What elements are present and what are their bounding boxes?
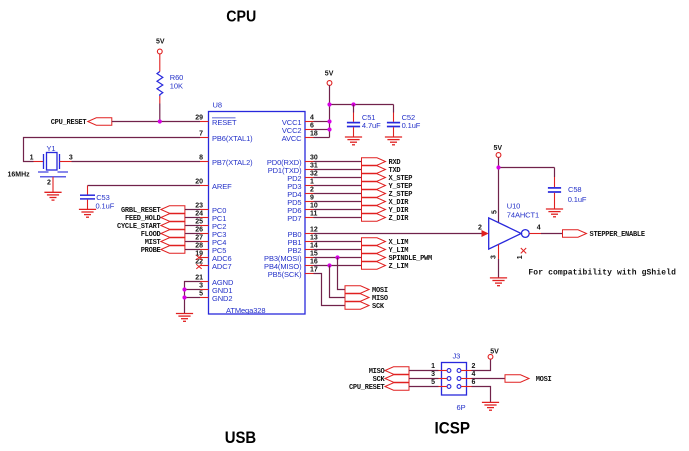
svg-text:RXD: RXD [389,159,401,167]
svg-text:CPU_RESET: CPU_RESET [51,119,87,127]
svg-text:4: 4 [537,225,541,232]
svg-text:6: 6 [310,123,314,130]
J3 pin 3 stub [431,371,447,378]
buffer U10 74AHCT1 triangle [489,202,539,250]
svg-text:31: 31 [310,163,318,170]
capacitor C51 4.7uF [347,105,381,137]
wire FEED_HOLD to U8 [185,217,200,219]
net flag Z_LIM [362,262,409,271]
U8 pin 4 VCC1 (right) [282,115,314,128]
U8 pin 6 VCC2 (right) [282,123,314,136]
net flag CYCLE_START [117,222,185,231]
svg-text:0.1uF: 0.1uF [568,195,587,204]
wire U8 to Y_LIM [314,249,362,251]
wire 5V to U10 pin5 [498,157,500,222]
wire GRBL_RESET to U8 [185,209,200,211]
svg-text:Z_DIR: Z_DIR [389,215,410,223]
wire GND1 [185,289,201,291]
wire AGND to ground [185,282,201,314]
net flag GRBL_RESET [121,206,185,215]
net flag X_STEP [362,174,413,183]
U8 pin 25 PC2 (left) [195,219,226,231]
wire U10 pin3 to ground [498,259,500,278]
junction GND2 [182,295,186,299]
wire SCK to J3 [409,378,439,380]
net flag Y_LIM [362,246,409,255]
wire MISO to J3 [409,370,439,372]
svg-text:X_LIM: X_LIM [389,239,409,247]
U8 pin 7 PB6(XTAL1) (left) [199,131,253,143]
U8 pin 19 ADC6 (left) [195,251,231,263]
svg-text:21: 21 [195,275,203,282]
svg-text:5: 5 [492,210,499,214]
U8 pin 31 PD1(TXD) (right) [268,163,318,176]
wire VCC1 [314,121,330,123]
svg-text:STEPPER_ENABLE: STEPPER_ENABLE [590,231,645,239]
junction C51 top [351,102,355,106]
U8 pin 32 PD2 (right) [287,171,318,184]
wire U8 to X_DIR [314,201,362,203]
svg-text:Z_LIM: Z_LIM [389,263,409,271]
ground under J3 [482,402,499,410]
svg-text:X_DIR: X_DIR [389,199,410,207]
U8 pin 1 PD3 (right) [287,179,314,192]
J3 pin 6 stub [461,379,475,386]
wire PB4 to MISO flag [330,266,346,298]
svg-text:SPINDLE_PWM: SPINDLE_PWM [389,255,433,263]
svg-text:14: 14 [310,243,318,250]
U8 pin 22 ADC7 (left) [195,259,231,271]
net flag FLOOD [141,230,185,239]
svg-text:10: 10 [310,203,318,210]
svg-text:29: 29 [195,115,203,122]
wire U10 out to STEPPER_ENABLE [541,233,563,235]
U8 pin 8 PB7(XTAL2) (left) [199,155,253,167]
svg-text:3: 3 [431,371,435,378]
junction 5V rail [327,102,331,106]
ground under U8 [176,314,193,322]
net flag SPINDLE_PWM [362,254,433,263]
J3 pin 5 stub [431,379,447,386]
svg-text:8: 8 [199,155,203,162]
svg-text:10K: 10K [170,81,183,90]
ground under C52 [385,137,402,145]
U8 pin 10 PD6 (right) [287,203,318,216]
net flag Z_STEP [362,190,413,199]
U8 pin 30 PD0(RXD) (right) [267,155,318,168]
svg-text:3: 3 [69,155,73,162]
svg-text:7: 7 [199,131,203,138]
svg-text:5: 5 [199,291,203,298]
svg-text:GND2: GND2 [212,294,232,303]
svg-text:Y_STEP: Y_STEP [389,183,413,191]
wire J3 pin6 to ground [472,387,491,403]
svg-text:AVCC: AVCC [282,134,303,143]
wire PB3 to MOSI flag [338,258,346,290]
svg-text:27: 27 [195,235,203,242]
U8 pin 23 PC0 (left) [195,203,226,215]
wire 5V branch to C58 [499,167,555,169]
svg-text:0.1uF: 0.1uF [402,121,421,130]
svg-text:GRBL_RESET: GRBL_RESET [121,207,161,215]
U8 pin 20 AREF (left) [195,179,232,191]
wire 5V down to VCC pins [329,85,331,137]
wire U8 to RXD [314,161,362,163]
svg-text:6P: 6P [457,403,466,412]
resistor R60 10K [157,54,183,104]
svg-text:5V: 5V [325,71,334,78]
svg-text:SCK: SCK [373,376,386,384]
wire PB5 to SCK flag [314,274,346,306]
svg-text:ICSP: ICSP [435,418,471,437]
net flag STEPPER_ENABLE [563,230,645,239]
U8 pin 11 PD7 (right) [287,211,317,224]
net flag X_DIR [362,198,410,207]
net flag Y_DIR [362,206,410,215]
U8 pin 29 RESET (left) [195,115,237,127]
connector J3 6P header [442,352,467,413]
U8 pin 17 PB5(SCK) (right) [268,267,318,280]
svg-text:0.1uF: 0.1uF [96,201,115,210]
junction VCC2 [327,127,331,131]
U8 pin 27 PC4 (left) [195,235,226,247]
svg-text:Z_STEP: Z_STEP [389,191,413,199]
wire PB0 to U10 input [314,233,483,235]
J3 pin 1 stub [431,363,447,370]
svg-text:CPU_RESET: CPU_RESET [349,384,385,392]
junction PB3 branch [335,255,339,259]
svg-text:1: 1 [310,179,314,186]
svg-text:12: 12 [310,227,318,234]
U8 pin 14 PB2 (right) [288,243,318,256]
net flag MISO [345,294,388,303]
net flag FEED_HOLD [125,214,185,223]
wire VCC2 [314,129,330,131]
net flag SCK [373,375,409,384]
svg-text:11: 11 [310,211,318,218]
net flag CPU_RESET [51,118,112,127]
wire FLOOD to U8 [185,233,200,235]
wire U8 to TXD [314,169,362,171]
svg-text:20: 20 [195,179,203,186]
wire GND2 [185,297,201,299]
svg-text:16: 16 [310,259,318,266]
svg-text:26: 26 [195,227,203,234]
U8 pin 5 GND2 (left) [199,291,232,303]
svg-text:1: 1 [30,155,34,162]
wire U8 to Z_DIR [314,217,362,219]
power symbol 5V (VCC U8) [325,71,334,86]
svg-text:28: 28 [195,243,203,250]
ground under C58 [546,209,563,217]
svg-text:2: 2 [472,363,476,370]
svg-text:SCK: SCK [372,303,385,311]
capacitor C52 0.1uF [387,105,421,137]
capacitor C53 0.1uF [80,186,115,211]
net flag Y_STEP [362,182,413,191]
svg-text:TXD: TXD [389,167,401,175]
IC U8 ATMega328 body [209,112,306,315]
U8 pin 2 PD4 (right) [287,187,314,200]
svg-text:18: 18 [310,131,318,138]
U8 pin 3 GND1 (left) [199,283,232,295]
svg-text:ATMega328: ATMega328 [226,306,265,315]
svg-text:25: 25 [195,219,203,226]
junction GND1 [182,287,186,291]
junction PB4 branch [327,263,331,267]
svg-text:PB7(XTAL2): PB7(XTAL2) [212,158,253,167]
svg-text:FEED_HOLD: FEED_HOLD [125,215,161,223]
svg-text:5V: 5V [156,38,165,45]
svg-text:15: 15 [310,251,318,258]
svg-text:17: 17 [310,267,318,274]
net flag TXD [362,166,401,175]
wire U8 to SPINDLE_PWM [314,257,362,259]
wire U8 to Y_DIR [314,209,362,211]
wire AVCC [314,137,330,139]
svg-text:32: 32 [310,171,318,178]
svg-text:2: 2 [47,180,51,187]
U8 pin 9 PD5 (right) [287,195,314,208]
wire CYCLE_START to U8 [185,225,200,227]
power symbol 5V (J3) [488,349,499,360]
U8 pin 21 AGND (left) [195,275,234,287]
svg-text:PB6(XTAL1): PB6(XTAL1) [212,134,253,143]
svg-text:ADC7: ADC7 [212,262,232,271]
wire U8 pin20 AREF to C53 [88,185,201,187]
svg-text:C58: C58 [568,185,581,194]
crystal Y1 [34,144,72,177]
junction VCC1 [327,119,331,123]
svg-text:1: 1 [431,363,435,370]
junction U10 5V [496,165,500,169]
net flag MISO [369,367,409,376]
svg-text:24: 24 [195,211,203,218]
svg-text:13: 13 [310,235,318,242]
wire U8 to X_STEP [314,177,362,179]
wire U8 to X_LIM [314,241,362,243]
svg-text:2: 2 [478,225,482,232]
power symbol 5V (R60) [156,38,165,53]
U8 pin 26 PC3 (left) [195,227,226,239]
U8 pin 18 AVCC (right) [282,131,318,144]
net flag PROBE [141,246,185,255]
wire crystal case to ground [52,177,54,193]
no-connect X on pin 22 ADC7 [196,264,201,269]
svg-text:3: 3 [491,255,498,259]
svg-text:2: 2 [310,187,314,194]
svg-text:MISO: MISO [369,368,385,376]
U8 pin 12 PB0 (right) [288,227,318,240]
svg-text:16MHz: 16MHz [8,172,31,179]
power symbol 5V (U10) [494,145,503,158]
wire J3 pin2 to 5V [472,359,491,370]
svg-text:FLOOD: FLOOD [141,231,161,239]
wire R60 to RESET net [159,104,161,122]
net flag MIST [145,238,185,247]
svg-text:MOSI: MOSI [372,287,388,295]
J3 pin 2 stub [461,363,475,370]
U8 pin 24 PC1 (left) [195,211,226,223]
svg-text:AREF: AREF [212,182,232,191]
svg-text:Y_DIR: Y_DIR [389,207,410,215]
svg-text:4: 4 [472,371,476,378]
svg-text:MIST: MIST [145,239,161,247]
svg-text:23: 23 [195,203,203,210]
svg-text:J3: J3 [453,352,461,361]
U10 output pin 4 stub [529,233,541,235]
wire CPU_RESET to U8 pin 29 [112,121,200,123]
wire PROBE to U8 [185,249,200,251]
svg-text:RESET: RESET [212,118,237,127]
svg-text:1: 1 [517,255,524,259]
U8 pin 16 PB4(MISO) (right) [264,259,318,272]
net flag X_LIM [362,238,409,247]
wire MIST to U8 [185,241,200,243]
wire U8 pin7 to crystal pin1 [24,138,201,162]
wire CPU_RESET to J3 [409,386,439,388]
net flag MOSI [505,375,552,384]
wire U8 to Y_STEP [314,185,362,187]
J3 pin 4 stub [461,371,475,378]
svg-text:5V: 5V [494,145,503,152]
U10 input arrow pin 2 [482,230,489,237]
svg-text:9: 9 [310,195,314,202]
svg-text:4.7uF: 4.7uF [362,121,381,130]
svg-text:Y_LIM: Y_LIM [389,247,409,255]
ground under Y1 [44,192,61,200]
U8 pin 13 PB1 (right) [288,235,318,248]
junction RESET/R60 [158,119,162,123]
svg-text:MOSI: MOSI [536,376,552,384]
U8 pin 28 PC5 (left) [195,243,226,255]
svg-text:30: 30 [310,155,318,162]
svg-text:4: 4 [310,115,314,122]
wire U8 to Z_LIM [314,265,362,267]
svg-text:3: 3 [199,283,203,290]
ground under U10 [490,278,507,286]
svg-text:74AHCT1: 74AHCT1 [507,210,539,219]
svg-text:U8: U8 [213,101,222,110]
net flag SCK [345,302,385,311]
no-connect X on pin 19 ADC6 [196,255,201,260]
svg-text:PROBE: PROBE [141,247,161,255]
svg-text:For compatibility with gShield: For compatibility with gShield [528,269,676,278]
net flag MOSI [345,286,388,295]
svg-text:MISO: MISO [372,295,388,303]
wire J3 pin4 to MOSI [472,378,506,380]
svg-text:5: 5 [431,379,435,386]
net flag Z_DIR [362,214,410,223]
capacitor C58 0.1uF [548,168,587,209]
wire crystal pin3 to U8 pin8 [72,161,201,163]
svg-text:Y1: Y1 [47,144,56,153]
U8 pin 15 PB3(MOSI) (right) [264,251,318,264]
svg-text:6: 6 [472,379,476,386]
net flag CPU_RESET [349,383,409,392]
wire 5V rail to C51/C52 [330,104,394,106]
svg-text:U10: U10 [507,202,520,211]
U10 pin 3 stub [498,244,500,259]
ground under C51 [345,137,362,145]
svg-text:PD7: PD7 [287,214,301,223]
svg-text:19: 19 [195,251,203,258]
svg-text:CPU: CPU [226,9,256,26]
net flag RXD [362,158,401,167]
svg-text:USB: USB [225,428,257,447]
ground under C53 [79,209,96,217]
svg-text:PB5(SCK): PB5(SCK) [268,270,302,279]
U10 unused pin 1 marker [517,248,526,259]
wire U8 to Z_STEP [314,193,362,195]
svg-text:CYCLE_START: CYCLE_START [117,223,161,231]
svg-text:X_STEP: X_STEP [389,175,413,183]
